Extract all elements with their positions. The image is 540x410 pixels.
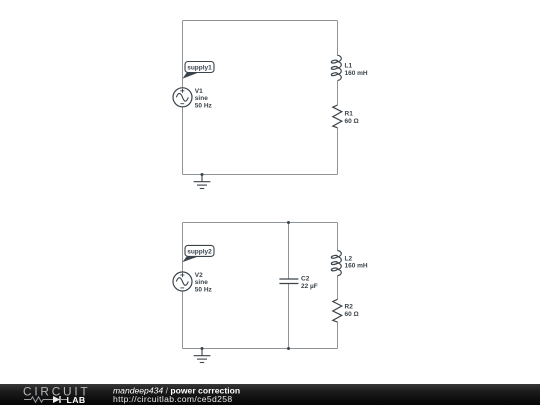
svg-text:http://circuitlab.com/ce5d258: http://circuitlab.com/ce5d258: [113, 394, 233, 404]
label R1 60 ohm: [345, 110, 359, 125]
svg-text:60 Ω: 60 Ω: [345, 118, 359, 125]
svg-text:60 Ω: 60 Ω: [345, 311, 359, 318]
svg-text:50 Hz: 50 Hz: [195, 102, 213, 109]
svg-text:sine: sine: [195, 279, 208, 286]
inductor L1: [331, 55, 341, 80]
voltage source V1: [173, 88, 192, 107]
label L1 160 mH: [345, 63, 368, 77]
svg-text:sine: sine: [195, 95, 208, 102]
wire right lower: [337, 128, 339, 175]
svg-text:V1: V1: [195, 88, 203, 95]
wire left lower (182.5,106.8)-(182.5,174.3): [182, 107, 184, 175]
svg-text:22 µF: 22 µF: [301, 283, 318, 290]
svg-text:L1: L1: [345, 63, 353, 70]
logo wire: [43, 399, 53, 401]
wire bottom: [183, 174, 338, 176]
capacitor C2: [279, 279, 298, 284]
ground (top circuit): [194, 173, 211, 189]
wire bottom: [183, 348, 338, 350]
logo circuit symbol: wire: [24, 399, 31, 401]
junction node (289,222.3): [287, 221, 290, 224]
svg-text:160 mH: 160 mH: [345, 263, 368, 270]
wire left lower: [182, 291, 184, 349]
wire left upper (182.5,20)-(182.5,87.8): [182, 21, 184, 88]
junction node (289,348.3): [287, 347, 290, 350]
svg-text:supply2: supply2: [187, 248, 212, 255]
wire right upper: [337, 223, 339, 251]
svg-text:R1: R1: [345, 110, 354, 117]
node label supply1: [183, 62, 215, 79]
wire right middle: [337, 81, 339, 105]
wire right lower: [337, 322, 339, 348]
wire middle upper (to C2): [288, 223, 290, 279]
svg-text:LAB: LAB: [67, 395, 86, 405]
label L2 160 mH: [345, 255, 368, 269]
logo diode: [53, 396, 60, 403]
label R2 60 ohm: [345, 304, 359, 318]
wire right middle: [337, 276, 339, 300]
svg-text:supply1: supply1: [187, 64, 212, 71]
logo wire: [60, 399, 67, 401]
wire top: [183, 222, 338, 224]
svg-text:50 Hz: 50 Hz: [195, 287, 213, 294]
label C2 22 uF: [301, 276, 318, 290]
logo resistor zigzag: [31, 397, 43, 402]
label V2 sine 50 Hz: [195, 272, 213, 294]
node label supply2: [182, 245, 214, 262]
resistor R2: [333, 299, 342, 322]
wire middle lower: [288, 284, 290, 349]
svg-text:160 mH: 160 mH: [345, 70, 368, 77]
wire left upper: [182, 223, 184, 273]
voltage source V2: [173, 272, 192, 291]
ground (bottom circuit): [194, 347, 211, 363]
inductor L2: [331, 251, 341, 276]
svg-text:L2: L2: [345, 255, 353, 262]
svg-text:R2: R2: [345, 304, 354, 311]
label V1 sine 50 Hz: [195, 88, 213, 110]
resistor R1: [333, 105, 342, 128]
svg-text:V2: V2: [195, 272, 203, 279]
wire right upper: [337, 21, 339, 56]
footer bar: [0, 384, 540, 405]
wire top (182.5,20)-(337.5,20): [183, 20, 338, 22]
svg-text:C2: C2: [301, 276, 310, 283]
